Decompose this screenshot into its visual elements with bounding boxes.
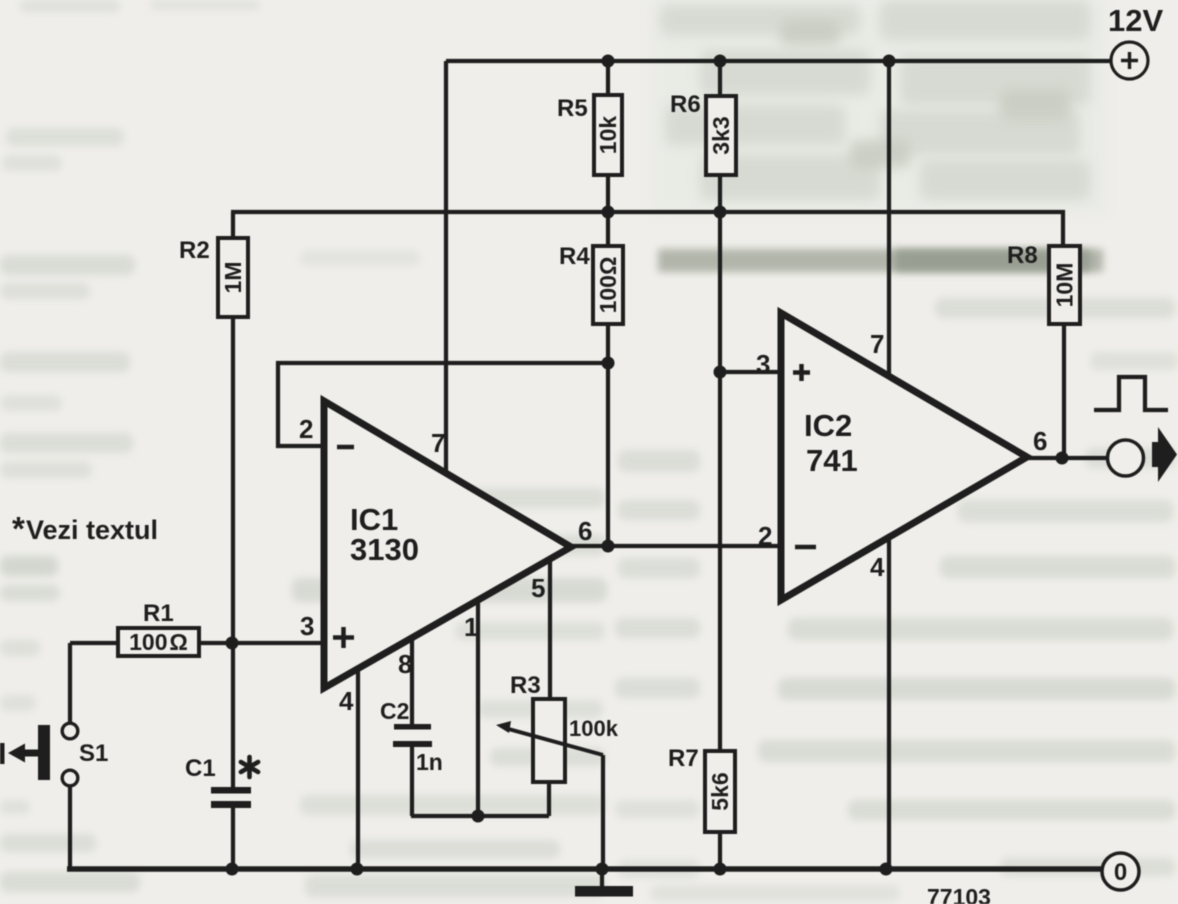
svg-text:1n: 1n <box>416 749 443 775</box>
svg-text:R6: R6 <box>670 91 701 118</box>
svg-text:R1: R1 <box>143 600 174 627</box>
svg-text:8: 8 <box>398 649 412 679</box>
svg-text:6: 6 <box>1033 426 1047 456</box>
svg-text:3130: 3130 <box>350 532 419 567</box>
svg-text:10k: 10k <box>595 116 621 155</box>
svg-text:R7: R7 <box>668 745 699 772</box>
svg-text:R5: R5 <box>557 95 588 122</box>
svg-text:10M: 10M <box>1052 263 1078 308</box>
svg-text:*: * <box>12 510 25 547</box>
svg-text:5k6: 5k6 <box>707 772 733 810</box>
svg-text:2: 2 <box>758 521 772 551</box>
svg-text:0: 0 <box>1114 859 1127 886</box>
svg-text:R8: R8 <box>1007 242 1038 269</box>
svg-text:IC2: IC2 <box>804 408 852 443</box>
svg-text:77103: 77103 <box>927 884 991 904</box>
svg-text:7: 7 <box>870 329 884 359</box>
svg-text:Vezi textul: Vezi textul <box>26 515 158 545</box>
svg-text:R3: R3 <box>510 672 541 699</box>
svg-text:100 Ω: 100 Ω <box>129 629 188 655</box>
svg-text:C1: C1 <box>185 755 216 782</box>
svg-text:12V: 12V <box>1108 3 1163 38</box>
svg-text:6: 6 <box>578 516 592 546</box>
svg-text:1M: 1M <box>220 262 246 294</box>
svg-text:S1: S1 <box>79 740 108 767</box>
svg-text:C2: C2 <box>380 698 409 724</box>
svg-text:1: 1 <box>464 612 478 642</box>
svg-text:4: 4 <box>339 686 354 716</box>
svg-text:4: 4 <box>870 552 885 582</box>
svg-text:3: 3 <box>300 611 314 641</box>
svg-text:100k: 100k <box>569 716 619 741</box>
svg-text:R4: R4 <box>559 243 590 270</box>
svg-text:7: 7 <box>431 428 445 458</box>
svg-text:741: 741 <box>806 443 858 478</box>
svg-text:100Ω: 100Ω <box>595 257 621 314</box>
svg-text:5: 5 <box>531 573 545 603</box>
svg-text:2: 2 <box>299 414 313 444</box>
svg-text:3: 3 <box>756 349 770 379</box>
svg-text:3k3: 3k3 <box>708 116 734 154</box>
svg-text:R2: R2 <box>179 237 210 264</box>
